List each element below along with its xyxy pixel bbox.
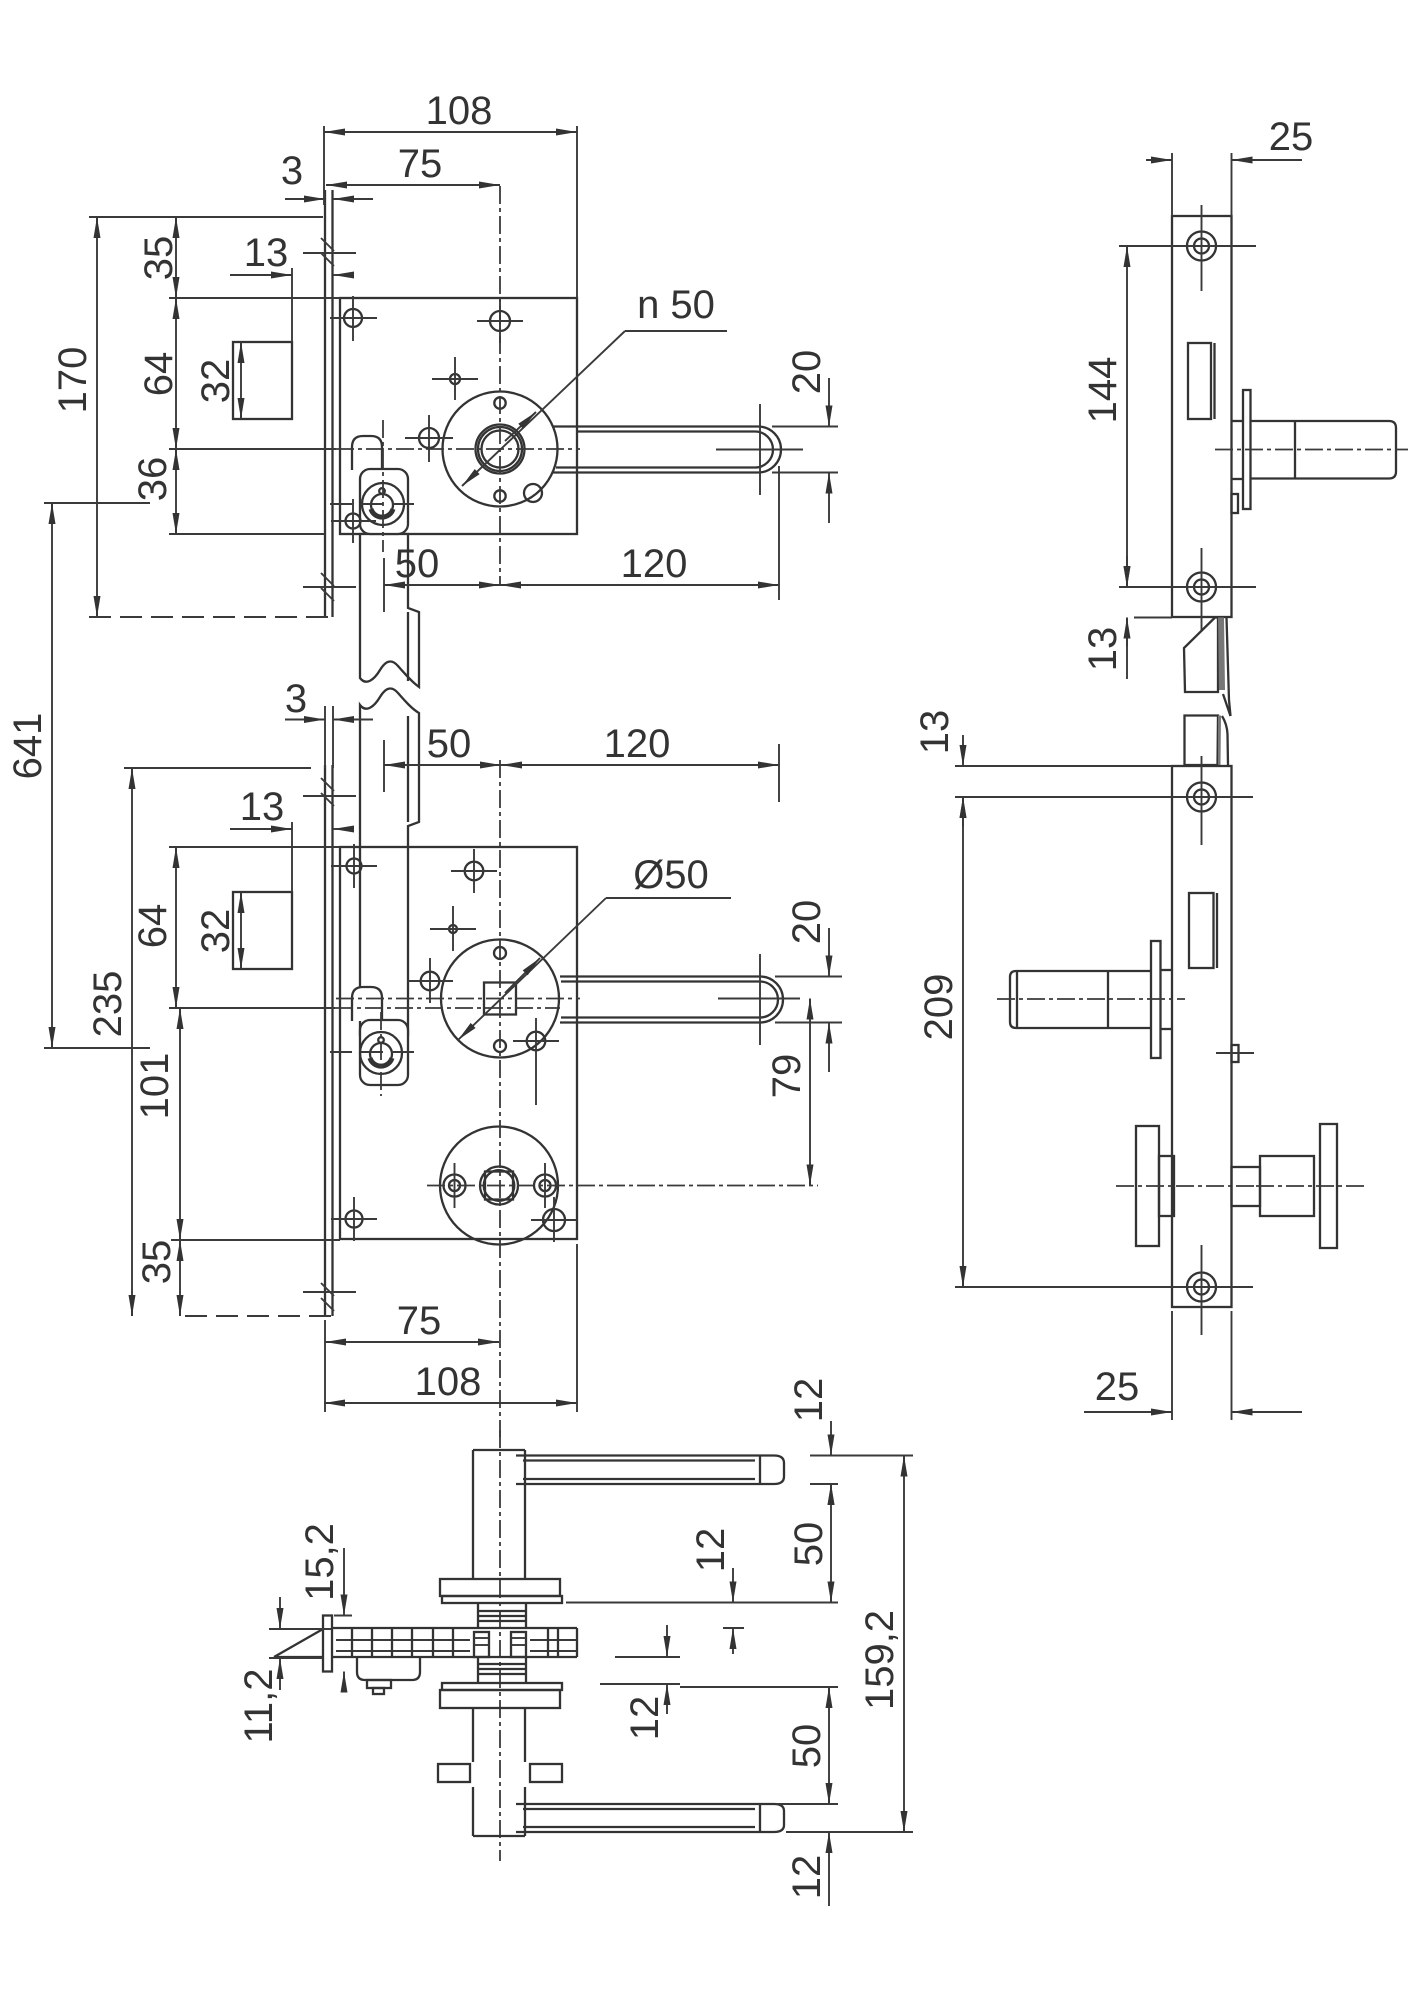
svg-text:108: 108 (426, 89, 493, 133)
dim 64 lower (131, 847, 560, 1008)
handle lower: inner lines (561, 982, 778, 1018)
rose small hole top (494, 947, 506, 959)
dim 108 top (324, 89, 577, 298)
dim 12 bottom right (785, 1832, 913, 1906)
dim 101 left (133, 1008, 180, 1240)
svg-text:75: 75 (397, 1299, 442, 1343)
bottom hub middle part (473, 1708, 525, 1762)
svg-text:170: 170 (51, 347, 95, 414)
dim 209 left (917, 797, 1185, 1287)
dim 235 left (86, 768, 311, 1316)
dim 50 lower right (680, 1687, 838, 1804)
dim 25 top (1146, 115, 1313, 216)
top washer ring stack (478, 1603, 526, 1628)
dim 35 lower (135, 1240, 340, 1316)
dim 13 upper (230, 231, 347, 275)
faceplate break hatch bottom (303, 1283, 356, 1311)
square spindle (484, 983, 516, 1015)
extension line box to dim 13 lower (291, 822, 293, 892)
flange lower side (1151, 941, 1161, 1058)
rosette small hole top (494, 397, 505, 408)
lock body rectangle lower (340, 847, 577, 1239)
latch pivot tongue upper (352, 436, 382, 470)
connecting bar lower segment (360, 688, 419, 1035)
extra hole below right (531, 1197, 577, 1242)
svg-text:50: 50 (787, 1522, 831, 1567)
dim 79 right (765, 999, 810, 1186)
faceplate cross-section (323, 1616, 332, 1672)
ext segment for dims 20/79 (718, 998, 800, 1000)
central axis centerline (499, 1430, 501, 1861)
lock body rectangle (340, 298, 577, 534)
side plate lower (1172, 766, 1232, 1307)
dim 120 upper (500, 466, 779, 600)
main centerline vertical lower lock (499, 760, 501, 1437)
dashed reference line at 617 (89, 616, 331, 618)
latch pivot dot lower (378, 1037, 384, 1043)
label n 50 with leader (462, 283, 727, 486)
svg-text:641: 641 (6, 713, 50, 780)
thumbturn centerline (997, 998, 1185, 1000)
nub on plate right (1216, 1045, 1254, 1062)
svg-text:25: 25 (1269, 115, 1314, 159)
latch pivot circle upper (362, 483, 404, 525)
dim 12 middle upper (689, 1528, 744, 1654)
handle end tick (759, 404, 761, 495)
latch housing top view (357, 1657, 420, 1694)
rose flange side (1243, 390, 1251, 509)
handle upper: inner lines (556, 432, 773, 468)
dim 13 lower side (913, 710, 1185, 827)
svg-text:15,2: 15,2 (298, 1523, 342, 1601)
faceplate screw lower (lower lock) (331, 1197, 377, 1241)
svg-text:32: 32 (194, 909, 238, 954)
svg-text:12: 12 (785, 1855, 829, 1900)
dim 32 box (194, 342, 241, 419)
faceplate screw bottom with crosshair (331, 499, 376, 543)
faceplate strip lower lock (325, 765, 333, 1316)
body hole top with crosshair (477, 299, 523, 343)
svg-text:13: 13 (244, 231, 289, 275)
rosette screw lower right (524, 484, 542, 502)
boss lower side (1161, 970, 1173, 1029)
svg-text:235: 235 (86, 971, 130, 1038)
svg-text:50: 50 (427, 722, 472, 766)
cylinder screw left (444, 1163, 466, 1208)
dim 50 lower (384, 722, 501, 792)
top flange (440, 1579, 562, 1603)
cylinder square spindle (485, 1172, 513, 1200)
svg-text:3: 3 (281, 149, 303, 193)
small hole with crosshair lower (430, 906, 476, 951)
svg-text:50: 50 (395, 542, 440, 586)
small nub below flange (1232, 494, 1239, 513)
dim 50 upper (384, 542, 500, 612)
latch pivot circle lower (360, 1032, 402, 1074)
dim 11,2 left (237, 1597, 331, 1743)
mortise slot lower side (1189, 893, 1217, 968)
faceplate break hatch top (303, 778, 356, 806)
dim 13 upper side (1081, 556, 1172, 679)
interior rose tabs (438, 1764, 562, 1782)
svg-text:13: 13 (1081, 627, 1125, 672)
lock case band top view (332, 1628, 577, 1657)
connecting bar upper segment (360, 534, 419, 687)
svg-text:79: 79 (765, 1054, 809, 1099)
dim 20 handle lower (775, 900, 842, 1072)
hole left of rose with crosshair (407, 958, 453, 1003)
svg-text:Ø50: Ø50 (633, 853, 709, 897)
svg-text:32: 32 (194, 359, 238, 404)
svg-text:35: 35 (135, 1240, 179, 1285)
label O50 with leader (458, 853, 731, 1040)
svg-text:36: 36 (131, 457, 175, 502)
latch pivot dot upper (379, 488, 385, 494)
hub rings (476, 425, 525, 474)
dim 13 lower (230, 785, 347, 829)
svg-text:101: 101 (133, 1053, 177, 1120)
latch pivot housing upper (360, 469, 408, 534)
dim 35 left (89, 217, 340, 298)
cylinder core rings (480, 1167, 518, 1205)
side plate upper (1172, 216, 1232, 617)
svg-text:64: 64 (131, 904, 175, 949)
svg-text:13: 13 (240, 785, 285, 829)
latch pivot tongue lower (352, 987, 382, 1021)
faceplate strip upper lock (325, 190, 333, 617)
top hub cylinder (473, 1450, 525, 1579)
strike box (32 keeper) (233, 342, 292, 419)
bottom handle bar (516, 1804, 784, 1832)
top screw lower side (1178, 756, 1253, 845)
svg-text:209: 209 (917, 974, 961, 1041)
pivot centerlines upper (330, 420, 420, 552)
strike box lower (233, 892, 292, 969)
faceplate screw top with crosshair (330, 296, 377, 341)
dim 170 left (51, 217, 97, 617)
handle upper: outer outline (553, 427, 781, 473)
svg-text:159,2: 159,2 (858, 1610, 902, 1710)
svg-text:20: 20 (785, 900, 829, 945)
dim 3 top (281, 149, 373, 199)
bottom washer ring stack (478, 1657, 526, 1683)
svg-text:108: 108 (415, 1360, 482, 1404)
dim 108 bottom (324, 1244, 577, 1412)
exterior handle end view (right) (1232, 1124, 1366, 1248)
hub centerline vertical (499, 186, 501, 584)
mortise slot upper side (1188, 343, 1215, 419)
rose screw lower right with crosshair (513, 1018, 559, 1105)
handle/hub centerline horizontal (336, 448, 580, 450)
svg-text:12: 12 (623, 1696, 667, 1741)
svg-text:120: 120 (621, 542, 688, 586)
dim 25 bottom side (1084, 1311, 1302, 1420)
rose small hole bottom (494, 1040, 506, 1052)
handle centerline lower (336, 998, 580, 1000)
dashed reference line at 1316 (185, 1315, 331, 1317)
faceplate break hatch upper (303, 238, 356, 266)
dim 32 lower box (194, 892, 241, 969)
dim 36 left (131, 449, 325, 534)
svg-text:12: 12 (787, 1378, 831, 1423)
faceplate break hatch lower part (303, 573, 356, 601)
bottom flange (440, 1683, 562, 1708)
svg-text:35: 35 (137, 236, 181, 281)
latch bolt side (below plate) (1184, 618, 1231, 717)
dim 12 top right (787, 1378, 913, 1500)
cylinder rose circle (440, 1127, 558, 1245)
dim 144 side (1081, 246, 1180, 587)
bottom screw lower side (1178, 1245, 1253, 1335)
cylinder screw right (534, 1163, 556, 1208)
dim 641 far left (6, 503, 150, 1048)
svg-text:11,2: 11,2 (237, 1669, 281, 1744)
handle lower: outer outline (560, 977, 783, 1023)
dim 12 middle lower (600, 1625, 680, 1740)
latch pivot housing lower (360, 1020, 408, 1085)
dim 3 lower (285, 677, 373, 768)
small hole with crosshair (432, 357, 478, 400)
strike wedge (274, 1629, 323, 1657)
svg-text:75: 75 (398, 142, 443, 186)
rosette n50 outer circle (443, 392, 558, 507)
body screw top with crosshair (451, 849, 497, 893)
bottom screw side (1147, 548, 1256, 640)
svg-text:64: 64 (137, 352, 181, 397)
svg-text:20: 20 (785, 350, 829, 395)
extension line box edge to dim 13 (291, 268, 293, 342)
latch pivot inner keyhole upper (371, 494, 393, 516)
hole left of rosette with crosshair (405, 415, 453, 462)
dim 159,2 right (858, 1456, 904, 1833)
pivot centerlines lower (330, 1012, 420, 1096)
handle shaft side (1251, 421, 1397, 479)
latch pivot inner keyhole lower (370, 1043, 392, 1065)
dim 75 bottom (325, 1299, 499, 1412)
svg-text:120: 120 (604, 722, 671, 766)
dim 120 lower (501, 722, 779, 802)
follower rose circle O50 (441, 940, 559, 1058)
svg-text:n 50: n 50 (637, 283, 715, 327)
handle end tick lower (759, 954, 761, 1045)
dim 50 upper right (566, 1484, 838, 1603)
deadbolt side (gap piece) (1185, 716, 1229, 766)
hub boss on plate (1232, 421, 1244, 479)
interior handle end view (left) (1116, 1126, 1256, 1246)
svg-text:144: 144 (1081, 357, 1125, 424)
svg-text:50: 50 (785, 1724, 829, 1769)
cylinder centerline horizontal (427, 1185, 818, 1187)
thumbturn shaft lower side (1010, 971, 1151, 1028)
dim 20 handle upper (772, 350, 838, 523)
dim 15,2 left (298, 1523, 352, 1684)
svg-text:12: 12 (689, 1528, 733, 1573)
svg-text:13: 13 (913, 710, 957, 755)
top screw side (1147, 205, 1256, 291)
rosette small hole bottom (494, 490, 505, 501)
faceplate screw upper (lower lock) (331, 844, 377, 888)
svg-text:25: 25 (1095, 1365, 1140, 1409)
top handle bar (516, 1456, 784, 1485)
bottom hub lower part (473, 1787, 525, 1836)
dim 75 top (326, 142, 500, 186)
shaft centerline (1215, 449, 1408, 451)
svg-text:3: 3 (285, 677, 307, 721)
dim 64 left (137, 298, 336, 449)
